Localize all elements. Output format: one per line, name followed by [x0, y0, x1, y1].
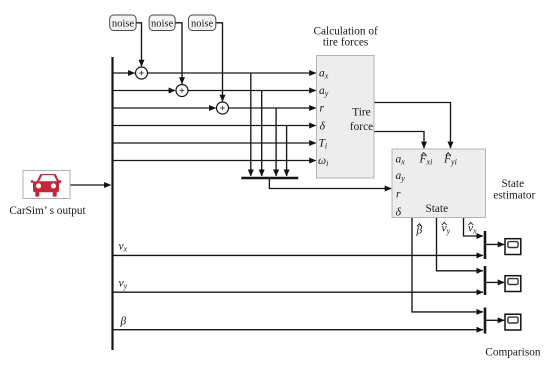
wire ax: sum S1 to tire block — [148, 72, 316, 74]
scope 1 — [505, 239, 521, 255]
wire r: backbone to sum S3 — [113, 107, 216, 109]
wire tire force output 1 to Fyi — [374, 103, 451, 149]
sum junction S2 — [176, 85, 188, 97]
wire noise1 to sum S1 — [136, 23, 141, 66]
wire ay: sum S2 to tire block — [188, 90, 316, 92]
wire noise2 to sum S2 — [175, 23, 182, 84]
scope 3 — [505, 314, 521, 330]
wire CarSim output to backbone — [70, 184, 111, 186]
wire mux1 to scope1 — [486, 243, 504, 245]
backbone vertical wire — [111, 57, 113, 350]
wire vy from backbone to mux2 — [113, 291, 483, 293]
mux bar 1 — [484, 231, 487, 259]
label vy-hat — [442, 222, 451, 235]
wire omega_i — [113, 160, 316, 162]
wire beta from backbone to mux3 — [113, 329, 483, 331]
wire Ti — [113, 142, 316, 144]
svg-text:β: β — [120, 316, 127, 328]
svg-text:noise: noise — [151, 19, 174, 30]
block: noise 2 — [149, 15, 175, 31]
svg-text:Tire: Tire — [352, 107, 370, 119]
block: noise 1 — [110, 15, 136, 31]
label state estimator — [493, 178, 535, 201]
svg-text:noise: noise — [191, 19, 214, 30]
block: tire forces calculation — [317, 56, 375, 179]
sum junction S1 — [136, 67, 148, 79]
scope 2 — [505, 276, 521, 292]
mux bar 2 — [484, 266, 487, 295]
svg-text:estimator: estimator — [493, 190, 535, 202]
block: state estimator — [392, 149, 486, 218]
block: noise 3 — [189, 15, 216, 31]
sum junction S3 — [217, 102, 229, 114]
label Fxi-hat — [419, 153, 433, 167]
wire mux3 to scope3 — [486, 319, 504, 321]
wire state output vx-hat to mux1 — [464, 218, 483, 237]
label beta-hat — [416, 224, 423, 237]
svg-text:State: State — [426, 203, 449, 215]
svg-text:Calculation of: Calculation of — [313, 25, 378, 37]
wire r: sum S3 to tire block — [229, 107, 316, 109]
svg-text:δ: δ — [320, 118, 326, 132]
svg-text:CarSim’ s output: CarSim’ s output — [9, 205, 86, 217]
wire state output beta-hat to mux3 — [412, 218, 483, 312]
label vx-hat — [468, 222, 477, 235]
svg-text:r: r — [396, 189, 401, 201]
svg-text:vx: vx — [119, 241, 128, 254]
svg-text:Comparison: Comparison — [485, 346, 541, 358]
svg-text:noise: noise — [112, 19, 135, 30]
svg-text:tire forces: tire forces — [323, 37, 368, 49]
mux bar 3 — [484, 308, 487, 334]
wire tap delta down to bus — [286, 126, 288, 177]
wire noise3 to sum S3 — [216, 23, 223, 101]
svg-text:State: State — [502, 178, 525, 190]
label tire force — [350, 107, 373, 133]
block: CarSim output — [23, 171, 70, 199]
label Fyi-hat — [443, 153, 457, 167]
wire ay: backbone to sum S2 — [113, 90, 176, 92]
wire mux2 to scope2 — [486, 281, 504, 283]
wire tire force output 2 to Fxi — [374, 132, 424, 149]
wire tap r down to bus — [275, 108, 277, 176]
icon: car — [31, 174, 61, 197]
svg-text:force: force — [350, 121, 373, 133]
wire vx from backbone to mux1 — [113, 254, 483, 256]
svg-text:vy: vy — [119, 278, 128, 291]
wire state output vy-hat to mux2 — [437, 218, 483, 271]
wire tap ax down to bus — [250, 73, 252, 176]
label calculation of tire forces — [313, 25, 378, 48]
wire tap ay down to bus — [261, 91, 263, 177]
svg-text:r: r — [320, 103, 325, 115]
bus bar — [241, 177, 298, 180]
svg-text:δ: δ — [396, 205, 402, 219]
wire ax: backbone to sum S1 — [113, 72, 135, 74]
wire bus to state block — [269, 178, 391, 189]
wire delta — [113, 125, 316, 127]
